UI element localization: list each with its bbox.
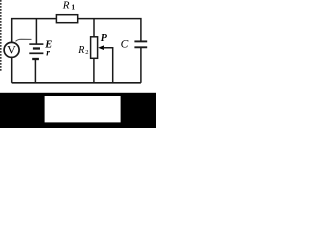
wire top-right segment bbox=[78, 19, 141, 41]
wire bottom rail bbox=[12, 82, 141, 84]
resistor R1 bbox=[56, 15, 77, 23]
black band bbox=[0, 93, 156, 128]
wire R2 bottom stub bbox=[93, 58, 95, 83]
wire capacitor bottom stub bbox=[140, 47, 142, 83]
wire battery bottom stub bbox=[34, 59, 36, 83]
svg-text:r: r bbox=[46, 49, 50, 59]
wire top-left segment bbox=[12, 19, 57, 43]
battery E plate 3 long bbox=[29, 52, 43, 54]
svg-text:2: 2 bbox=[85, 49, 88, 56]
stray scan mark near battery bbox=[16, 39, 32, 41]
wire R2 top stub bbox=[93, 19, 95, 37]
white answer box bbox=[45, 96, 121, 122]
capacitor C plate bottom bbox=[134, 46, 147, 48]
dashed margin line bbox=[0, 0, 2, 72]
svg-text:C: C bbox=[121, 38, 129, 50]
wire left-bottom bbox=[11, 57, 13, 83]
svg-text:V: V bbox=[7, 42, 16, 56]
svg-text:1: 1 bbox=[71, 3, 75, 12]
battery E plate 4 short bbox=[32, 58, 39, 60]
svg-text:P: P bbox=[101, 33, 108, 44]
capacitor C plate top bbox=[134, 40, 147, 42]
svg-text:R: R bbox=[77, 45, 84, 56]
wiper arrow P of R2 bbox=[98, 45, 104, 50]
voltmeter U1 circle bbox=[4, 42, 19, 57]
battery E plate 2 short bbox=[33, 47, 40, 49]
rheostat R2 box bbox=[91, 37, 98, 59]
wire battery top stub bbox=[35, 19, 37, 44]
svg-text:R: R bbox=[62, 0, 70, 11]
battery E plate 1 long bbox=[29, 43, 43, 45]
